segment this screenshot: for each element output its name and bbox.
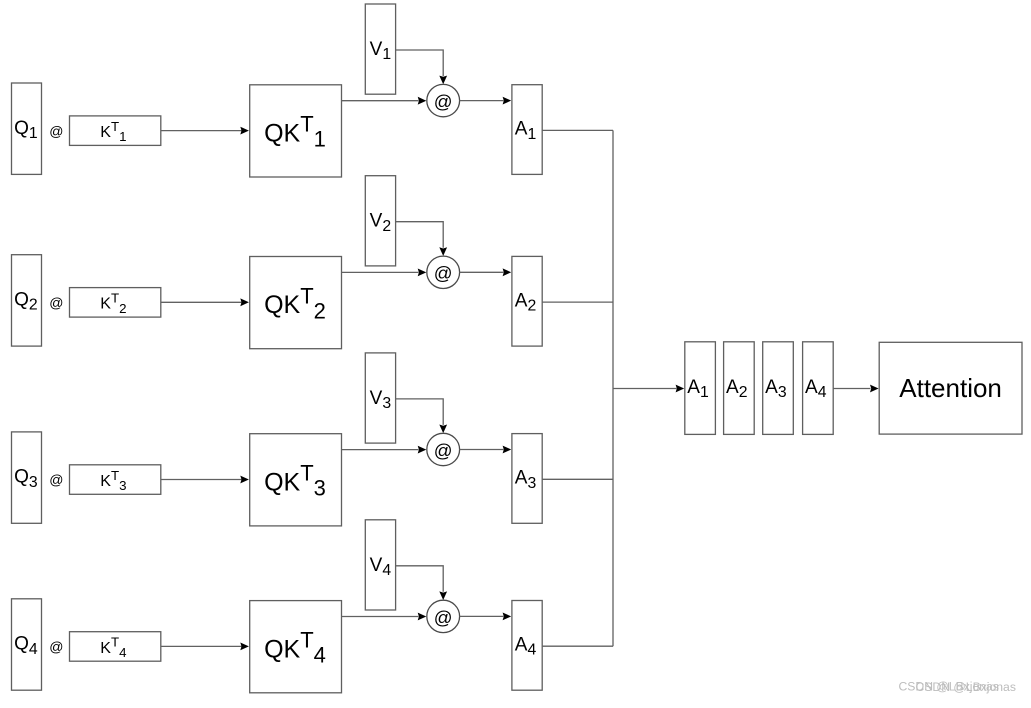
svg-text:@: @ <box>49 639 63 655</box>
svg-text:@: @ <box>49 295 63 311</box>
svg-text:CSDN @LBxjonas: CSDN @LBxjonas <box>916 680 1016 694</box>
svg-text:Attention: Attention <box>899 373 1002 403</box>
svg-text:@: @ <box>434 263 453 284</box>
svg-text:@: @ <box>434 440 453 461</box>
svg-text:@: @ <box>49 472 63 488</box>
svg-text:@: @ <box>434 91 453 112</box>
svg-text:@: @ <box>49 123 63 139</box>
svg-text:@: @ <box>434 607 453 628</box>
